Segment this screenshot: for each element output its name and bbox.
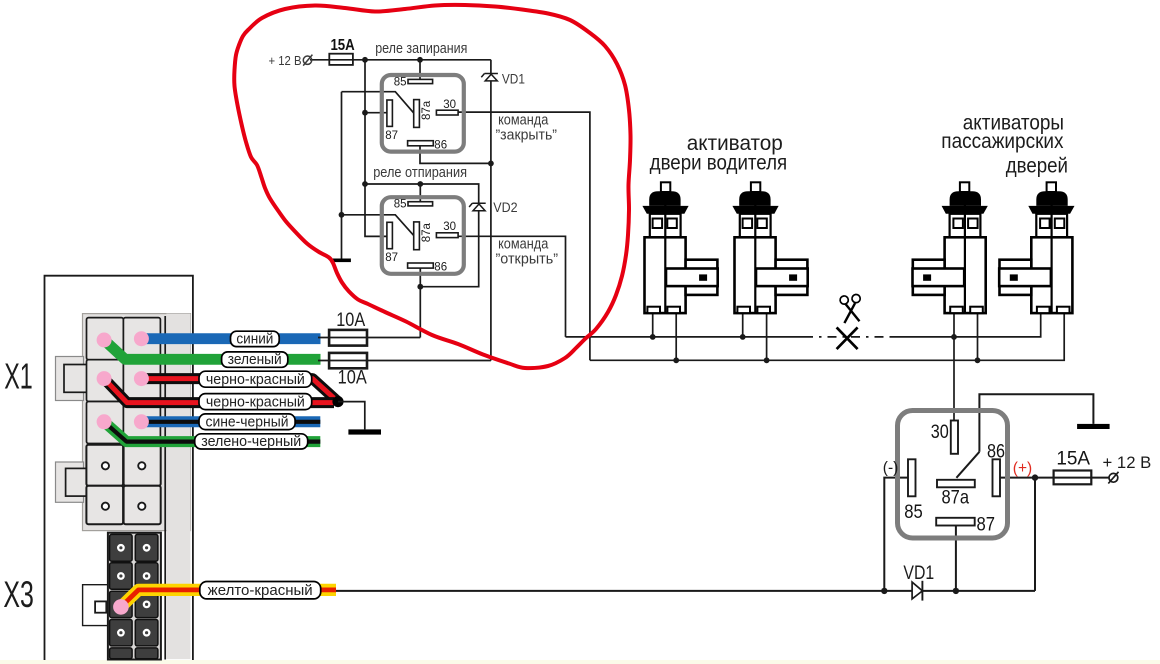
ground bar top-left xyxy=(332,259,351,263)
X1 hole r5c1 xyxy=(102,503,109,510)
svg-text:85: 85 xyxy=(904,501,923,523)
svg-text:двери водителя: двери водителя xyxy=(650,152,788,175)
relay K3 body xyxy=(898,411,1008,539)
svg-text:30: 30 xyxy=(443,99,456,111)
actuator A4 passenger xyxy=(999,182,1074,313)
wire B lower actuator bus xyxy=(590,313,1064,360)
svg-text:+ 12 В: + 12 В xyxy=(269,53,302,68)
label box cherno-krasny 1 xyxy=(199,371,312,388)
svg-text:85: 85 xyxy=(394,199,407,211)
connector left tab 1 xyxy=(56,357,84,401)
svg-text:86: 86 xyxy=(434,262,447,274)
wire relay2 85 drop xyxy=(419,184,421,202)
relay K2 pin labels xyxy=(385,199,456,274)
junction dots top section xyxy=(339,57,981,363)
svg-text:10A: 10A xyxy=(338,368,367,389)
X3 notch square xyxy=(95,601,106,612)
wire relay1 30 komanda zakryt xyxy=(458,112,590,360)
X1 cell r3c1 xyxy=(87,402,124,444)
connector left tab 1 inner xyxy=(64,365,87,393)
wire relay3 85 to bus xyxy=(884,478,908,591)
cut X mark xyxy=(837,327,858,349)
fuse F1 10A xyxy=(329,330,367,346)
X1 cell r2c1 xyxy=(87,360,124,402)
svg-text:черно-красный: черно-красный xyxy=(206,394,305,410)
fuse 15A top xyxy=(329,54,353,65)
wire relay1 85 drop xyxy=(419,60,421,80)
actuator A2 driver door pair xyxy=(732,182,807,313)
terminal circle top xyxy=(303,56,311,64)
connector gray panel xyxy=(83,314,191,531)
label box siniy xyxy=(231,331,280,347)
svg-text:черно-красный: черно-красный xyxy=(206,372,305,388)
X1 cell r5c2 xyxy=(124,486,161,525)
scissors xyxy=(840,294,863,323)
wire relay2 top xyxy=(365,184,479,287)
svg-text:дверей: дверей xyxy=(1006,154,1068,177)
wire relay1 arm xyxy=(342,92,414,114)
connector gray right strip xyxy=(166,314,190,659)
X1 hole r5c2 xyxy=(138,503,145,510)
svg-text:X1: X1 xyxy=(4,355,33,396)
svg-text:реле отпирания: реле отпирания xyxy=(373,164,467,181)
wire relay2 86 drop to fuse1 xyxy=(419,268,421,338)
junction dots bottom xyxy=(881,474,1038,594)
svg-text:”открыть”: ”открыть” xyxy=(496,250,559,267)
junction blob black-red xyxy=(332,396,343,407)
X1 hole r4c2 xyxy=(138,462,145,469)
pin X1 r2c1 xyxy=(97,371,112,386)
svg-text:30: 30 xyxy=(931,421,949,443)
svg-text:87а: 87а xyxy=(421,100,433,120)
actuator A3 passenger xyxy=(912,182,987,313)
relay K1 contact bars xyxy=(387,79,458,145)
svg-text:15A: 15A xyxy=(330,37,354,54)
wire A dash-dot cut section xyxy=(804,336,890,338)
pin X3 xyxy=(113,599,129,615)
wire left vertical to relay2 87 xyxy=(365,60,387,237)
wire relay1 87 branch xyxy=(365,112,387,114)
wire +12V to top right corner xyxy=(310,59,491,61)
X1 cell r4c1 xyxy=(86,445,123,486)
wire relay3 87 to bus xyxy=(955,526,957,591)
connector X1/X3 outer housing xyxy=(45,276,193,660)
svg-text:87а: 87а xyxy=(421,223,433,243)
label box cherno-krasny 2 xyxy=(199,394,312,411)
wire A upper actuator bus xyxy=(566,336,805,338)
svg-text:85: 85 xyxy=(394,76,407,88)
wire right vertical (fuse2 riser) xyxy=(490,60,492,361)
svg-text:”закрыть”: ”закрыть” xyxy=(496,127,558,144)
X1 cell r5c1 xyxy=(86,486,123,525)
wire to ground 1 xyxy=(338,402,365,430)
svg-text:VD1: VD1 xyxy=(903,563,934,584)
X1 cell r1c2 xyxy=(123,318,160,360)
wire from fuse 10A-1 xyxy=(318,337,420,339)
wire relay2 30 komanda otkryt xyxy=(458,236,565,337)
connector inner vertical line xyxy=(164,316,166,660)
relay K1 pin labels xyxy=(385,76,456,151)
svg-text:(-): (-) xyxy=(883,459,899,476)
svg-text:зелено-черный: зелено-черный xyxy=(201,434,301,450)
X1 hole r4c1 xyxy=(102,462,109,469)
label box zhelto-krasny xyxy=(200,582,321,600)
wire relay3 common arm to ground xyxy=(979,394,1093,452)
wire blue-black xyxy=(141,416,320,427)
wire bottom bus yellow-red continuation xyxy=(336,590,1035,592)
bottom cream strip xyxy=(0,660,1160,664)
svg-text:зеленый: зеленый xyxy=(228,352,282,368)
actuator3 right leg xyxy=(977,313,979,360)
pin X1 r1c1 xyxy=(97,333,112,348)
svg-text:87: 87 xyxy=(385,252,398,264)
svg-text:реле запирания: реле запирания xyxy=(375,40,467,57)
wire black-red 2 xyxy=(104,379,334,403)
svg-text:86: 86 xyxy=(987,441,1005,463)
pin X1 r3c1 xyxy=(97,414,112,429)
diode VD2 zener xyxy=(469,203,486,210)
wire yellow-red xyxy=(121,590,336,607)
red marker loop xyxy=(234,5,630,368)
X1 cell r1c1 xyxy=(87,318,124,360)
label box zeleno-cherny xyxy=(195,434,308,450)
svg-text:желто-красный: желто-красный xyxy=(208,582,313,599)
svg-text:10A: 10A xyxy=(336,310,365,331)
pin X1 r3c2 xyxy=(134,414,149,429)
connector left tab 2 inner xyxy=(66,468,87,496)
wire green (zeleny) xyxy=(104,340,320,359)
svg-text:87: 87 xyxy=(977,514,996,536)
svg-text:VD2: VD2 xyxy=(493,200,517,215)
fuse F3 15A xyxy=(1054,471,1092,485)
svg-text:синий: синий xyxy=(236,331,273,347)
diode VD1 zener xyxy=(481,74,498,81)
svg-text:87: 87 xyxy=(385,130,398,142)
ground bar 1 xyxy=(348,429,381,434)
svg-text:+ 12 В: + 12 В xyxy=(1103,454,1152,472)
svg-text:X3: X3 xyxy=(3,574,34,615)
relay K3 pin labels xyxy=(904,421,1005,536)
wire common to ground xyxy=(341,92,343,259)
svg-text:15A: 15A xyxy=(1056,447,1090,469)
relay K2 contact bars xyxy=(387,202,458,268)
wire relay3 86 to fuse xyxy=(1000,477,1109,479)
X3 notch outline xyxy=(83,585,109,626)
wire relay3 arm diagonal xyxy=(956,452,979,478)
svg-text:(+): (+) xyxy=(1013,460,1032,477)
label box zeleny xyxy=(222,352,288,368)
svg-text:30: 30 xyxy=(443,221,456,233)
wire black-red 1 xyxy=(141,379,337,401)
wire relay1 86 xyxy=(420,146,491,164)
label box sine-cherny xyxy=(199,414,295,430)
svg-text:VD1: VD1 xyxy=(502,71,525,86)
svg-text:сине-черный: сине-черный xyxy=(206,414,289,430)
svg-text:87а: 87а xyxy=(942,487,970,509)
X1 cell r3c2 xyxy=(123,402,160,444)
actuator3 left leg to relay 30 xyxy=(953,313,955,420)
pin X1 r2c2 xyxy=(134,371,149,386)
X3 cell eyelets xyxy=(117,544,151,637)
diode VD1 bottom xyxy=(912,582,922,599)
connector left tab 2 xyxy=(56,462,84,502)
fuse F2 10A xyxy=(329,353,367,368)
pin X1 r1c2 xyxy=(134,331,149,346)
X3 dark cells xyxy=(110,534,158,658)
relay K3 contact bars xyxy=(908,421,1000,526)
relay K1 body xyxy=(382,75,464,152)
ground bar bottom xyxy=(1077,424,1110,429)
actuator2 right leg xyxy=(766,313,768,360)
terminal circle bottom xyxy=(1109,473,1118,482)
actuator A1 driver door xyxy=(642,182,717,313)
actuator1 right leg xyxy=(675,313,677,360)
svg-text:86: 86 xyxy=(434,139,447,151)
actuator1 left leg xyxy=(652,313,654,337)
wire blue (siniy) xyxy=(141,333,320,344)
wire relay2 arm xyxy=(342,215,414,236)
wire A continues to actuator 4 xyxy=(890,313,1041,337)
relay K2 body xyxy=(382,197,464,274)
wire green-black xyxy=(104,422,320,442)
wire from fuse 10A-2 xyxy=(318,360,491,362)
X1 cell r4c2 xyxy=(124,445,161,486)
X3 dark block background xyxy=(108,533,161,660)
X1 cell r2c2 xyxy=(123,360,160,402)
actuator2 left leg xyxy=(742,313,744,337)
wire riser to fuse line xyxy=(1034,478,1036,591)
svg-text:пассажирских: пассажирских xyxy=(941,130,1064,153)
